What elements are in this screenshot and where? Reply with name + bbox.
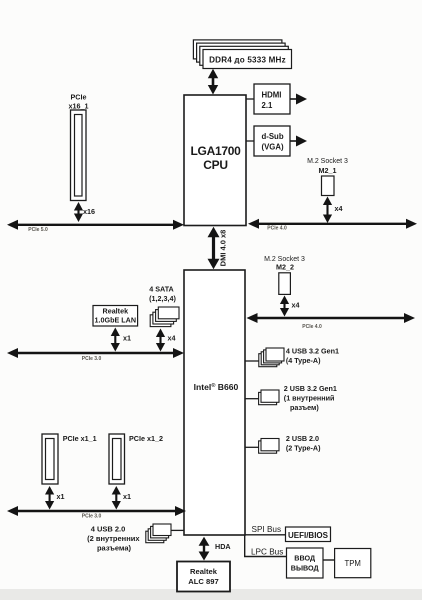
svg-text:2.1: 2.1 bbox=[262, 101, 274, 110]
HDA link arrow bbox=[199, 537, 210, 561]
HDA label bbox=[215, 542, 231, 551]
M2_2 x4 link arrow bbox=[280, 296, 289, 317]
svg-text:PCIe 3.0: PCIe 3.0 bbox=[82, 514, 102, 520]
d-Sub output arrow bbox=[290, 136, 307, 147]
DMI 4.0 x8 link arrow bbox=[208, 227, 220, 269]
M.2 Socket 3 M2_2 label bbox=[264, 256, 305, 272]
svg-text:PCIe x1_2: PCIe x1_2 bbox=[129, 434, 163, 443]
USB 3.2 Gen1 x4 label bbox=[286, 347, 339, 366]
PCIe 3.0 bus (middle) bbox=[7, 348, 184, 358]
svg-text:Realtek: Realtek bbox=[103, 307, 129, 316]
svg-text:TPM: TPM bbox=[344, 559, 360, 568]
PCIe 3.0 bus (bottom) bbox=[7, 506, 186, 516]
PCIe x1_1 slot label bbox=[63, 434, 97, 443]
svg-text:x4: x4 bbox=[292, 301, 300, 310]
svg-text:(4 Type-A): (4 Type-A) bbox=[286, 356, 321, 365]
svg-text:M2_1: M2_1 bbox=[319, 166, 337, 175]
svg-text:ВВОД: ВВОД bbox=[294, 554, 315, 563]
svg-text:LPC Bus: LPC Bus bbox=[251, 548, 283, 557]
svg-text:(2 Type-A): (2 Type-A) bbox=[286, 444, 321, 453]
LPC Bus label bbox=[251, 548, 283, 557]
svg-text:CPU: CPU bbox=[203, 158, 227, 172]
LAN x1 label bbox=[123, 334, 131, 343]
M.2 Socket 3 M2_1 label bbox=[307, 158, 348, 175]
svg-text:2 USB 2.0: 2 USB 2.0 bbox=[286, 434, 319, 443]
svg-text:PCIe 3.0: PCIe 3.0 bbox=[82, 356, 102, 362]
svg-text:4 USB 3.2 Gen1: 4 USB 3.2 Gen1 bbox=[286, 347, 339, 356]
x16 label bbox=[83, 207, 95, 216]
4 SATA label bbox=[149, 285, 176, 304]
svg-text:2 USB 3.2 Gen1: 2 USB 3.2 Gen1 bbox=[284, 384, 337, 393]
svg-text:HDA: HDA bbox=[215, 542, 231, 551]
PCIe 4.0 bus (CPU right) bbox=[248, 219, 417, 229]
LPC bus wire bbox=[244, 556, 287, 558]
PCIe 5.0 bus bbox=[7, 220, 184, 230]
PCIe x16_1 slot bbox=[71, 110, 87, 201]
svg-text:x16: x16 bbox=[83, 207, 95, 216]
wire chipset to USB2.0 stack bbox=[245, 446, 259, 448]
USB 2.0 internal label bbox=[87, 525, 140, 553]
wire chipset to USB3.2 Gen1 x2 stack bbox=[245, 398, 259, 400]
SATA x4 label bbox=[168, 334, 176, 343]
USB 3.2 Gen1 x2 label bbox=[284, 384, 337, 412]
svg-text:M.2 Socket 3: M.2 Socket 3 bbox=[307, 158, 348, 165]
super I/O box (ВВОД ВЫВОД) bbox=[287, 548, 324, 578]
M2_1 x4 link arrow bbox=[323, 197, 332, 224]
svg-text:SPI Bus: SPI Bus bbox=[252, 525, 282, 534]
svg-text:ВЫВОД: ВЫВОД bbox=[291, 564, 319, 573]
PCIe 3.0 bus label (middle) bbox=[82, 356, 102, 362]
svg-text:1.0GbE LAN: 1.0GbE LAN bbox=[95, 316, 137, 325]
svg-text:ALC 897: ALC 897 bbox=[188, 577, 218, 586]
SPI bus wire bbox=[245, 535, 286, 557]
wire super I/O to TPM bbox=[323, 559, 335, 561]
svg-text:разъем): разъем) bbox=[290, 403, 319, 412]
svg-text:DDR4 до 5333 MHz: DDR4 до 5333 MHz bbox=[209, 56, 286, 65]
PCIe 3.0 bus label (bottom) bbox=[82, 514, 102, 520]
svg-text:x1: x1 bbox=[123, 334, 131, 343]
svg-text:(1,2,3,4): (1,2,3,4) bbox=[149, 294, 176, 303]
M2_2 x4 label bbox=[292, 301, 300, 310]
Realtek 1.0GbE LAN box bbox=[93, 306, 138, 327]
svg-text:разъема): разъема) bbox=[97, 544, 132, 553]
SPI Bus label bbox=[252, 525, 282, 534]
bottom scan strip bbox=[0, 589, 422, 600]
svg-text:4 SATA: 4 SATA bbox=[149, 285, 174, 294]
PCIe 5.0 bus label bbox=[28, 227, 48, 233]
svg-text:DMI 4.0 x8: DMI 4.0 x8 bbox=[219, 230, 228, 267]
PCIe 4.0 bus (chipset right) bbox=[247, 313, 416, 323]
svg-text:(VGA): (VGA) bbox=[262, 143, 284, 152]
USB 2.0 (2 Type-A) port stack bbox=[259, 439, 279, 454]
M.2 M2_1 slot box bbox=[322, 176, 335, 196]
chipset Intel B660 box bbox=[184, 270, 245, 535]
svg-text:PCIe 4.0: PCIe 4.0 bbox=[302, 324, 322, 330]
CPU LGA1700 box bbox=[184, 95, 246, 226]
d-Sub (VGA) box bbox=[254, 126, 290, 156]
wire CPU to d-Sub bbox=[246, 140, 254, 142]
PCIe x16_1 slot label bbox=[69, 93, 89, 111]
LAN x1 link arrow bbox=[111, 328, 120, 352]
x1_1 x1 label bbox=[57, 492, 65, 501]
x1_1 link arrow bbox=[45, 486, 54, 510]
svg-text:M2_2: M2_2 bbox=[276, 263, 294, 272]
DDR4 memory module stack bbox=[193, 40, 291, 69]
USB 3.2 Gen1 internal port stack bbox=[259, 390, 279, 405]
HDMI 2.1 box bbox=[254, 84, 290, 114]
x1_2 x1 label bbox=[123, 492, 131, 501]
svg-text:PCIe 5.0: PCIe 5.0 bbox=[28, 227, 48, 233]
svg-text:x1: x1 bbox=[57, 492, 65, 501]
HDMI output arrow bbox=[290, 94, 307, 105]
SATA port stack bbox=[150, 307, 179, 327]
wire chipset to USB3.2 Gen1 x4 stack bbox=[245, 360, 259, 362]
TPM box bbox=[335, 549, 371, 578]
USB 2.0 x2 label bbox=[286, 434, 321, 453]
wire CPU to HDMI bbox=[246, 98, 254, 100]
svg-text:HDMI: HDMI bbox=[262, 90, 282, 99]
SATA x4 link arrow bbox=[156, 329, 165, 352]
audio codec Realtek ALC 897 box bbox=[177, 562, 230, 592]
x1_2 link arrow bbox=[112, 486, 121, 510]
PCIe x1_2 slot bbox=[109, 434, 125, 484]
svg-text:PCIe: PCIe bbox=[71, 93, 87, 102]
svg-text:(2 внутренних: (2 внутренних bbox=[87, 534, 140, 543]
svg-text:x16_1: x16_1 bbox=[69, 102, 89, 111]
svg-text:4 USB 2.0: 4 USB 2.0 bbox=[91, 525, 126, 534]
PCIe 4.0 bus label (chipset right) bbox=[302, 324, 322, 330]
PCIe 4.0 bus label (CPU right) bbox=[267, 226, 287, 232]
svg-text:PCIe x1_1: PCIe x1_1 bbox=[63, 434, 97, 443]
svg-text:Realtek: Realtek bbox=[190, 567, 218, 576]
DMI 4.0 x8 label bbox=[219, 230, 228, 267]
memory bus arrow CPU-DDR4 bbox=[208, 69, 218, 95]
svg-text:LGA1700: LGA1700 bbox=[191, 144, 242, 158]
PCIe x1_1 slot bbox=[42, 434, 58, 484]
svg-text:d-Sub: d-Sub bbox=[262, 132, 284, 141]
wire USB2.0 stack to chipset bbox=[171, 529, 184, 531]
PCIe x1_2 slot label bbox=[129, 434, 163, 443]
M2_1 x4 label bbox=[335, 204, 343, 213]
USB 3.2 Gen1 (4 Type-A) port stack bbox=[259, 348, 284, 367]
M.2 M2_2 slot box bbox=[279, 273, 291, 295]
svg-text:x1: x1 bbox=[123, 492, 131, 501]
svg-text:PCIe 4.0: PCIe 4.0 bbox=[267, 226, 287, 232]
svg-text:(1 внутренний: (1 внутренний bbox=[284, 393, 335, 402]
svg-text:x4: x4 bbox=[335, 204, 343, 213]
USB 2.0 internal port stack bbox=[146, 524, 171, 543]
svg-text:x4: x4 bbox=[168, 334, 176, 343]
svg-text:UEFI/BIOS: UEFI/BIOS bbox=[288, 531, 329, 540]
svg-text:Intel® B660: Intel® B660 bbox=[194, 382, 239, 392]
x16 link arrow bbox=[74, 202, 83, 222]
UEFI/BIOS box bbox=[286, 527, 331, 542]
